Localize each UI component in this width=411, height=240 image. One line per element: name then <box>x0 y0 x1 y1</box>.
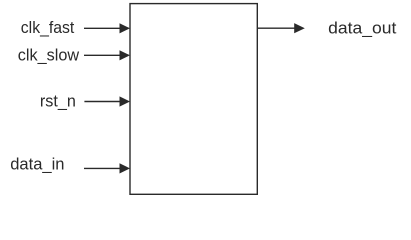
wire clk_slow input arrow <box>84 50 130 60</box>
svg-text:data_out: data_out <box>328 18 396 37</box>
wire data_out output arrow <box>257 23 305 33</box>
module block U1 <box>130 4 257 195</box>
wire data_in input arrow <box>84 163 130 173</box>
wire rst_n input arrow <box>84 96 130 106</box>
svg-text:data_in: data_in <box>10 155 64 174</box>
svg-text:clk_fast: clk_fast <box>21 18 75 37</box>
svg-text:rst_n: rst_n <box>40 92 76 111</box>
svg-text:clk_slow: clk_slow <box>18 45 80 64</box>
wire clk_fast input arrow <box>84 23 130 33</box>
